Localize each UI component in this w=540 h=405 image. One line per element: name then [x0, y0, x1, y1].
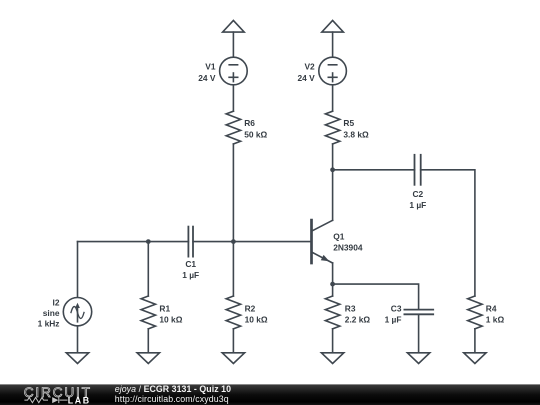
- wire input net horizontal left of C1: [78, 241, 189, 243]
- wire I2 riser: [77, 242, 79, 298]
- wire node A to R1: [147, 242, 149, 296]
- wire R1 to ground: [147, 329, 149, 353]
- wire emitter node to R3: [332, 284, 334, 296]
- label R3 value: [345, 303, 371, 324]
- voltage source V2: [319, 57, 347, 85]
- svg-text:1 kΩ: 1 kΩ: [486, 315, 505, 325]
- svg-text:24 V: 24 V: [198, 73, 216, 83]
- wire emitter down: [332, 263, 334, 284]
- ground under R3: [321, 353, 343, 364]
- label R6 value: [244, 118, 267, 139]
- label C3 value: [385, 303, 402, 324]
- label R5 value: [343, 118, 369, 139]
- svg-text:C3: C3: [391, 303, 402, 313]
- capacitor C3: [404, 310, 433, 315]
- ground under R2: [222, 353, 244, 364]
- label Q1 value: [333, 231, 363, 252]
- svg-text:I2: I2: [53, 297, 60, 307]
- svg-text:50 kΩ: 50 kΩ: [244, 130, 267, 140]
- svg-text:1 µF: 1 µF: [385, 315, 402, 325]
- svg-text:2.2 kΩ: 2.2 kΩ: [345, 315, 371, 325]
- resistor R5: [325, 111, 339, 144]
- footer bar: [0, 384, 540, 405]
- resistor R6: [226, 111, 240, 144]
- svg-text:1 µF: 1 µF: [182, 270, 199, 280]
- label V1 value: [198, 62, 216, 83]
- svg-text:R5: R5: [343, 118, 354, 128]
- CircuitLab logo: [24, 385, 92, 405]
- label R2 value: [245, 303, 268, 324]
- capacitor C1: [188, 227, 193, 257]
- current source I2: [63, 298, 91, 326]
- wire R4 to ground: [474, 329, 476, 353]
- svg-text:http://circuitlab.com/cxydu3q: http://circuitlab.com/cxydu3q: [115, 394, 229, 404]
- svg-text:V1: V1: [205, 62, 216, 72]
- wire power to V1: [232, 32, 234, 57]
- svg-text:3.8 kΩ: 3.8 kΩ: [343, 130, 369, 140]
- ground under R4: [464, 353, 486, 364]
- svg-text:24 V: 24 V: [297, 73, 315, 83]
- wire I2 to ground: [77, 326, 79, 353]
- svg-text:R2: R2: [245, 303, 256, 313]
- label C2 value: [409, 189, 426, 210]
- svg-text:C2: C2: [412, 189, 423, 199]
- wire C2 to R4: [421, 170, 475, 296]
- ground under R1: [137, 353, 159, 364]
- wire R2 to ground: [232, 329, 234, 353]
- svg-text:R3: R3: [345, 303, 356, 313]
- resistor R1: [141, 296, 155, 329]
- svg-text:LAB: LAB: [68, 396, 91, 405]
- svg-text:sine: sine: [43, 308, 60, 318]
- svg-text:Q1: Q1: [333, 231, 345, 241]
- svg-text:10 kΩ: 10 kΩ: [159, 315, 182, 325]
- svg-text:1 kHz: 1 kHz: [38, 319, 60, 329]
- wire R3 to ground: [332, 329, 334, 353]
- svg-text:ejoya / ECGR 3131 - Quiz 10: ejoya / ECGR 3131 - Quiz 10: [115, 384, 231, 394]
- wire power to V2: [332, 32, 334, 57]
- wire C3 to ground: [418, 314, 420, 353]
- svg-text:R4: R4: [486, 303, 497, 313]
- resistor R3: [325, 296, 339, 329]
- transistor Q1: [312, 220, 333, 263]
- svg-text:R1: R1: [159, 303, 170, 313]
- ground under C3: [407, 353, 429, 364]
- svg-text:C1: C1: [185, 259, 196, 269]
- emitter node junction dot: [330, 282, 335, 287]
- wire emitter node to C3: [333, 284, 419, 310]
- wire collector node to C2: [333, 169, 415, 171]
- collector node junction dot: [330, 167, 335, 172]
- wire base net horizontal right of C1: [193, 241, 312, 243]
- ground under I2: [66, 353, 88, 364]
- svg-text:V2: V2: [304, 62, 315, 72]
- wire R5 to collector: [332, 144, 334, 220]
- label R1 value: [159, 303, 182, 324]
- capacitor C2: [415, 155, 421, 185]
- label V2 value: [297, 62, 315, 83]
- wire node B to R2: [232, 242, 234, 296]
- power flag V2 top: [322, 20, 344, 32]
- resistor R4: [468, 296, 482, 329]
- node B junction dot: [231, 239, 236, 244]
- label C1 value: [182, 259, 199, 280]
- node A junction dot: [146, 239, 151, 244]
- resistor R2: [226, 296, 240, 329]
- power flag V1 top: [223, 20, 245, 32]
- svg-text:2N3904: 2N3904: [333, 243, 363, 253]
- label R4 value: [486, 303, 505, 324]
- svg-text:1 µF: 1 µF: [409, 200, 426, 210]
- svg-text:10 kΩ: 10 kΩ: [245, 315, 268, 325]
- label I2 value: [38, 297, 60, 328]
- wire R6 to node B: [232, 144, 234, 242]
- wire V2 to R5: [332, 85, 334, 111]
- voltage source V1: [220, 57, 248, 85]
- svg-text:R6: R6: [244, 118, 255, 128]
- wire V1 to R6: [232, 85, 234, 111]
- footer title text: [115, 384, 231, 404]
